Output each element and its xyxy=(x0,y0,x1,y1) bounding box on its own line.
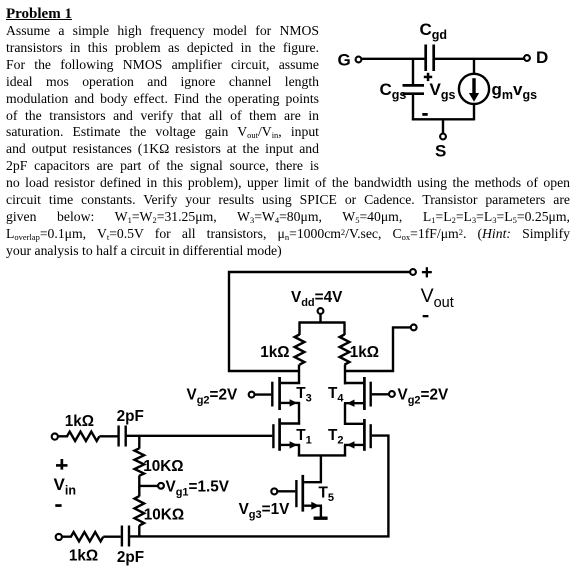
svg-text:T3: T3 xyxy=(296,385,311,405)
svg-text:Cgd: Cgd xyxy=(420,20,448,42)
terminal T5 gate Vg3 xyxy=(239,488,290,521)
svg-text:1kΩ: 1kΩ xyxy=(69,548,98,565)
svg-text:Vg2=2V: Vg2=2V xyxy=(187,386,238,406)
wire R1 to T3 drain xyxy=(298,365,300,385)
resistor R1 1kohm left xyxy=(260,335,304,365)
transistor T1 xyxy=(273,418,311,451)
resistor R3 1kohm upper input xyxy=(58,413,100,441)
wire T2 source to tail node xyxy=(344,445,346,457)
wire R5 to Vg1 node xyxy=(138,475,140,487)
svg-text:2pF: 2pF xyxy=(117,408,144,425)
svg-text:Vout: Vout xyxy=(421,285,454,311)
label Vin minus sign xyxy=(55,504,61,507)
terminal Vin minus input xyxy=(56,534,62,540)
wire R4 to C2 xyxy=(103,536,121,538)
transistor T5 xyxy=(296,475,334,512)
svg-text:Vg2=2V: Vg2=2V xyxy=(398,386,449,406)
wire Cgs to bottom rail xyxy=(412,94,414,121)
label Vout minus sign xyxy=(423,315,429,317)
wire bottom rail of model xyxy=(412,118,474,120)
wire T1 source to tail node xyxy=(298,445,300,457)
svg-text:1kΩ: 1kΩ xyxy=(350,344,379,361)
svg-text:T2: T2 xyxy=(328,427,343,447)
ground xyxy=(314,517,328,520)
svg-text:T5: T5 xyxy=(319,485,334,505)
wire T4 gate xyxy=(372,393,389,395)
wire Vdd rail xyxy=(298,314,345,335)
wire T5 gate xyxy=(277,490,295,492)
wire Vout plus to left output node xyxy=(229,272,410,371)
svg-text:G: G xyxy=(338,50,351,69)
svg-text:D: D xyxy=(536,48,548,67)
wire Vout minus to right output node xyxy=(344,327,411,371)
wire T5 source to ground xyxy=(320,506,322,517)
terminal Vdd xyxy=(291,289,343,314)
junction upper rail to R5 xyxy=(138,436,140,449)
svg-text:10KΩ: 10KΩ xyxy=(144,506,184,523)
wire R2 to T4 drain xyxy=(344,365,346,385)
terminal Vout minus xyxy=(411,325,417,331)
terminal G xyxy=(338,50,362,69)
label Vgs plus sign xyxy=(424,73,432,81)
svg-text:1kΩ: 1kΩ xyxy=(260,344,289,361)
svg-text:S: S xyxy=(435,142,446,161)
resistor R5 10Kohm upper xyxy=(135,448,184,475)
wire drain node to current source xyxy=(473,59,475,75)
terminal D xyxy=(524,48,548,67)
label Vgs minus sign xyxy=(422,113,427,116)
resistor R4 1kohm lower input xyxy=(62,532,103,565)
wire Vg1 tap xyxy=(139,485,158,487)
terminal T4 gate Vg2 xyxy=(389,386,449,406)
svg-text:1kΩ: 1kΩ xyxy=(65,413,94,430)
capacitor C1 2pF upper xyxy=(117,408,144,447)
wire T3 gate xyxy=(254,393,271,395)
svg-text:gmvgs: gmvgs xyxy=(492,80,538,102)
capacitor Cgd xyxy=(420,20,448,71)
wire Cgd to D xyxy=(434,58,525,60)
wire R6 to lower rail xyxy=(138,525,140,537)
terminal T3 gate Vg2 xyxy=(187,386,255,406)
label Vin plus sign xyxy=(56,459,68,470)
svg-text:Vin: Vin xyxy=(54,475,76,498)
svg-text:Vg3=1V: Vg3=1V xyxy=(239,501,290,521)
wire G to Cgd xyxy=(362,58,426,60)
wire R3 to C1 xyxy=(99,435,117,437)
svg-text:2pF: 2pF xyxy=(117,549,144,566)
capacitor C2 2pF lower xyxy=(117,526,144,567)
wire T2 gate to lower input rail xyxy=(372,436,389,538)
svg-text:Vg1=1.5V: Vg1=1.5V xyxy=(166,478,230,498)
wire T3 source to T1 drain xyxy=(298,403,300,425)
terminal Vg1 xyxy=(158,478,230,498)
wire C1 to T1 gate xyxy=(126,435,273,437)
svg-text:10KΩ: 10KΩ xyxy=(143,458,183,475)
wire gate node down to Cgs xyxy=(412,59,414,86)
terminal Vin plus input xyxy=(52,434,58,440)
current source gmVgs xyxy=(459,74,537,104)
resistor R2 1kohm right xyxy=(340,335,379,365)
capacitor Cgs xyxy=(380,80,425,102)
transistor T4 xyxy=(328,377,371,410)
wire tail node to T5 drain xyxy=(298,455,346,482)
terminal S xyxy=(435,119,446,160)
transistor T2 xyxy=(328,419,371,451)
svg-text:T1: T1 xyxy=(296,427,311,447)
wire current source to bottom rail xyxy=(473,103,475,120)
terminal Vout plus xyxy=(410,267,432,277)
resistor R6 10Kohm lower xyxy=(135,486,185,526)
wire C2 to T2 gate corner xyxy=(129,535,390,537)
svg-text:Cgs: Cgs xyxy=(380,80,407,102)
svg-text:Vdd=4V: Vdd=4V xyxy=(291,289,343,309)
wire T4 source to T2 drain xyxy=(344,403,346,425)
svg-text:T4: T4 xyxy=(328,385,344,405)
svg-text:Vgs: Vgs xyxy=(430,80,456,102)
transistor T3 xyxy=(272,377,311,410)
